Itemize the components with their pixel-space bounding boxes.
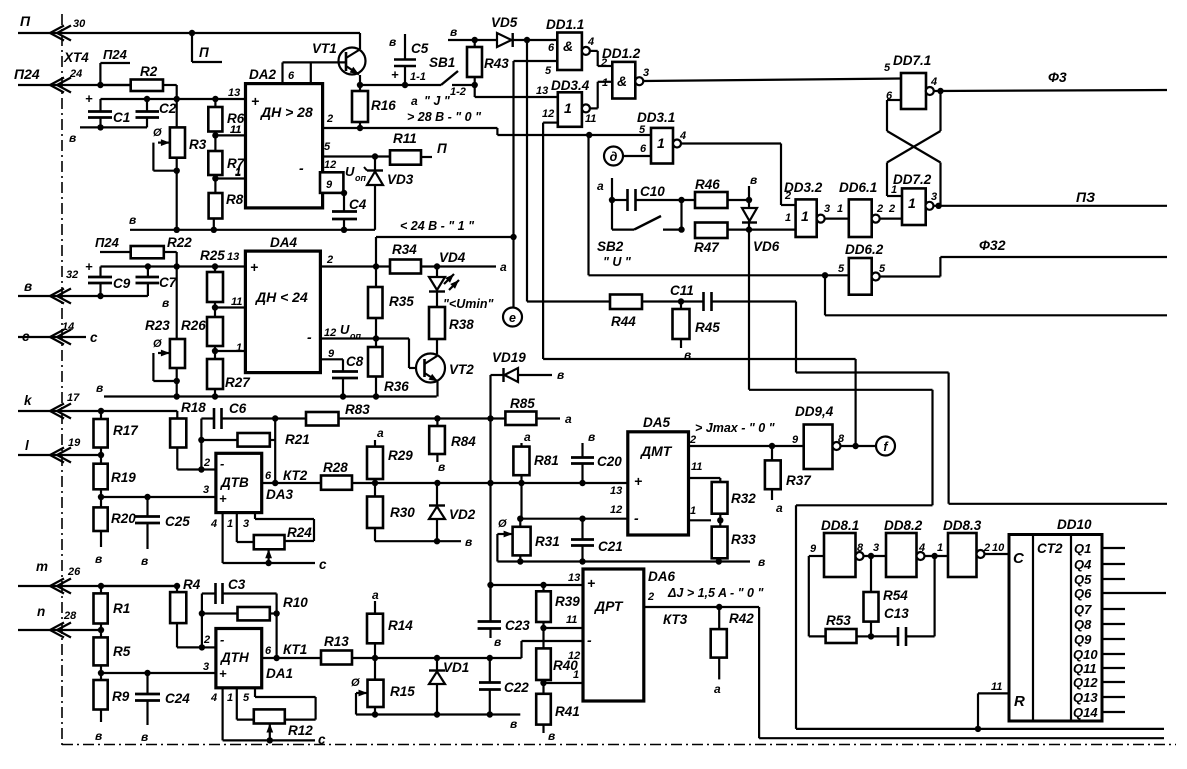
svg-text:10: 10 (992, 542, 1005, 554)
resistor R18 (170, 400, 206, 470)
svg-text:5: 5 (324, 141, 331, 153)
svg-text:a: a (377, 426, 384, 440)
svg-text:8: 8 (857, 542, 864, 554)
svg-text:Q14: Q14 (1073, 705, 1098, 720)
svg-text:Q4: Q4 (1074, 557, 1092, 572)
svg-text:DA2: DA2 (249, 67, 276, 82)
svg-text:Ø: Ø (153, 127, 162, 139)
resistor R54 (864, 556, 909, 636)
svg-text:Ø: Ø (351, 677, 360, 689)
svg-text:R43: R43 (484, 56, 509, 71)
wire net П top rail (18, 30, 360, 36)
svg-text:R4: R4 (183, 577, 201, 592)
wire DD3.1/DD6.2 input net (589, 135, 849, 278)
svg-text:28: 28 (63, 610, 77, 622)
wire net Ф32-2 output (825, 275, 1167, 315)
svg-text:R20: R20 (111, 511, 136, 526)
wire DA4 pin 1 stub (212, 348, 246, 354)
node д circle (604, 147, 651, 166)
potentiometer R31 (497, 518, 559, 565)
wire net КТ3 (DA6 output) (644, 586, 1164, 738)
op-amp U DA5 (ДМТ) (628, 415, 689, 535)
wire net VD5 anode (448, 25, 497, 43)
wire DD7.1 feedback cross (887, 91, 941, 206)
svg-text:-: - (307, 329, 312, 345)
svg-text:5: 5 (838, 263, 845, 275)
svg-text:Q8: Q8 (1074, 617, 1092, 632)
svg-text:5: 5 (639, 124, 646, 136)
gate DD9.4 (792, 404, 845, 469)
svg-text:c: c (90, 330, 98, 345)
svg-text:R47: R47 (694, 240, 720, 255)
svg-text:в: в (129, 213, 136, 227)
svg-text:КТ1: КТ1 (283, 642, 307, 657)
op-amp U DA6 (ДРТ) (583, 569, 675, 701)
svg-text:КТ2: КТ2 (283, 468, 308, 483)
gate DD6.1 (837, 180, 883, 237)
capacitor C8 (320, 354, 363, 397)
svg-text:2: 2 (600, 57, 607, 69)
svg-text:П: П (20, 13, 31, 29)
svg-text:a: a (524, 430, 531, 444)
wire DA1 pin 1 to R12 (227, 688, 254, 720)
svg-text:Q5: Q5 (1074, 572, 1092, 587)
svg-text:R22: R22 (167, 235, 192, 250)
svg-text:3: 3 (931, 191, 937, 203)
svg-text:a: a (411, 94, 418, 108)
resistor R26 (181, 308, 223, 352)
potentiometer R12 (254, 709, 313, 740)
transistor VT2 (416, 354, 474, 397)
svg-text:2: 2 (983, 542, 990, 554)
svg-text:2: 2 (647, 591, 654, 603)
svg-text:1: 1 (891, 184, 897, 196)
svg-text:в: в (557, 368, 564, 382)
svg-text:+: + (250, 259, 258, 275)
wire DA1 pin 2 net (199, 594, 216, 651)
node e circle (503, 308, 522, 327)
svg-text:1-1: 1-1 (410, 71, 426, 83)
svg-text:R1: R1 (113, 601, 130, 616)
capacitor C2 (136, 99, 177, 127)
svg-text:1: 1 (227, 518, 233, 530)
svg-text:R11: R11 (393, 131, 417, 146)
svg-text:2: 2 (784, 190, 791, 202)
svg-text:3: 3 (243, 518, 249, 530)
svg-text:+: + (85, 259, 93, 274)
capacitor C7 (136, 267, 178, 297)
resistor R53 (826, 613, 875, 643)
svg-text:Q7: Q7 (1074, 602, 1092, 617)
svg-text:в: в (96, 381, 103, 395)
diode VD1 (429, 658, 469, 718)
svg-text:R39: R39 (555, 594, 580, 609)
wire net a rail (R83/R85) (201, 415, 505, 470)
svg-text:2: 2 (326, 254, 333, 266)
svg-text:5: 5 (545, 65, 552, 77)
resistor R21 (198, 419, 310, 484)
node П stub label (192, 33, 222, 62)
resistor R16 (352, 85, 396, 128)
resistor R45 (673, 302, 721, 363)
resistor R43 (467, 40, 509, 88)
wire net l row (18, 452, 104, 458)
wire DA3 pin 2 net (198, 457, 216, 473)
svg-text:C13: C13 (884, 606, 909, 621)
wire net КТ2 rail (262, 468, 628, 486)
gate DD3.4 (536, 78, 596, 127)
diode VD5 (491, 15, 557, 47)
svg-text:CT2: CT2 (1037, 541, 1063, 556)
svg-text:-: - (220, 632, 224, 647)
svg-text:Q10: Q10 (1073, 647, 1098, 662)
svg-text:ДМТ: ДМТ (640, 443, 673, 459)
svg-text:+: + (587, 575, 595, 591)
wire DD3.4 pin 12 from f net (543, 121, 558, 123)
svg-text:> Jmax - " 0 ": > Jmax - " 0 " (695, 421, 776, 435)
capacitor C25 (135, 497, 190, 568)
svg-text:3: 3 (824, 203, 830, 215)
svg-text:-: - (634, 510, 639, 526)
svg-text:C7: C7 (159, 275, 178, 290)
resistor R8 (209, 179, 244, 230)
svg-text:2: 2 (689, 434, 696, 446)
resistor R29 (367, 426, 413, 483)
svg-text:Ø: Ø (498, 518, 507, 530)
svg-text:R83: R83 (345, 402, 370, 417)
wire DD8.2 out node (925, 542, 949, 559)
svg-text:" J ": " J " (424, 94, 451, 108)
wire node B rail (DA4 pin 13) (85, 259, 245, 274)
svg-text:R37: R37 (786, 473, 812, 488)
wire net k row (18, 408, 177, 419)
potentiometer R15 (351, 658, 415, 718)
svg-text:C6: C6 (229, 401, 247, 416)
svg-text:в: в (95, 552, 102, 566)
wire net КТ1 rail (262, 641, 583, 661)
svg-text:1: 1 (235, 167, 241, 179)
svg-text:DD9,4: DD9,4 (795, 404, 834, 419)
svg-text:Ø: Ø (153, 338, 162, 350)
svg-text:9: 9 (810, 543, 817, 555)
svg-text:C5: C5 (411, 41, 429, 56)
svg-text:в: в (389, 35, 396, 49)
wire net в rail 396 (96, 381, 437, 400)
resistor R11 (390, 131, 447, 165)
svg-text:DD3.1: DD3.1 (637, 110, 675, 125)
svg-text:2: 2 (203, 457, 210, 469)
svg-text:XT4: XT4 (63, 50, 89, 65)
svg-text:в: в (758, 555, 765, 569)
node f circle (876, 437, 895, 456)
svg-text:c: c (319, 557, 327, 572)
svg-text:12: 12 (324, 159, 336, 171)
wire DA6 pin 11 stub (544, 627, 584, 629)
svg-text:R53: R53 (826, 613, 851, 628)
svg-text:Ф3: Ф3 (1048, 69, 1067, 85)
connector pin 26 (m) (36, 559, 81, 594)
svg-text:l: l (25, 438, 29, 453)
svg-text:ΔJ > 1,5 A - " 0 ": ΔJ > 1,5 A - " 0 " (667, 586, 764, 600)
svg-text:в: в (141, 554, 148, 568)
svg-text:R54: R54 (883, 588, 908, 603)
svg-text:5: 5 (879, 263, 886, 275)
resistor R46 (695, 177, 749, 208)
svg-text:R32: R32 (731, 491, 756, 506)
svg-text:DA4: DA4 (270, 235, 297, 250)
wire DD1.2 out to DD7.1 (643, 79, 901, 82)
wire node A rail (DA2 pin 13) (85, 91, 246, 106)
wire net в-32 row (18, 293, 169, 310)
svg-text:R44: R44 (611, 314, 636, 329)
svg-text:R2: R2 (140, 64, 158, 79)
svg-text:R3: R3 (189, 137, 207, 152)
svg-text:DD6.1: DD6.1 (839, 180, 877, 195)
U DA6 pin numbers (566, 572, 654, 681)
node П24 stub 2 (95, 235, 131, 252)
svg-text:11: 11 (230, 124, 241, 136)
gate DD1.1 (545, 17, 594, 77)
wire net П24 row (18, 82, 131, 88)
resistor R27 (207, 351, 251, 397)
svg-text:DA1: DA1 (266, 666, 293, 681)
wire DA3 pin 3 net (101, 494, 216, 500)
resistor R36 (368, 339, 409, 397)
svg-text:9: 9 (326, 179, 333, 191)
wire DA6 pin 1 stub (544, 682, 584, 684)
diode VD6 (742, 200, 780, 254)
svg-text:ДРТ: ДРТ (594, 598, 624, 614)
wire DD8.3 out to DD10 (985, 553, 1010, 555)
svg-text:П24: П24 (14, 66, 40, 82)
resistor R25 (200, 248, 225, 308)
svg-text:в: в (141, 730, 148, 744)
svg-text:R30: R30 (390, 505, 415, 520)
resistor R85 (505, 396, 572, 426)
zener diode VD3 (345, 157, 414, 230)
svg-text:C20: C20 (597, 454, 622, 469)
svg-text:VD3: VD3 (387, 172, 414, 187)
svg-text:Q1: Q1 (1074, 541, 1091, 556)
svg-text:R24: R24 (287, 525, 312, 540)
wire net <24V-1 (376, 219, 517, 267)
capacitor C9 (88, 267, 131, 297)
svg-text:DD1.1: DD1.1 (546, 17, 584, 32)
svg-text:a: a (714, 682, 721, 696)
svg-text:DD8.2: DD8.2 (884, 518, 923, 533)
svg-text:C4: C4 (349, 197, 367, 212)
svg-text:П24: П24 (95, 235, 120, 250)
svg-text:3: 3 (203, 484, 209, 496)
wire net f (DD3.4 pin12 to DD9.4) (543, 123, 856, 446)
svg-text:VD6: VD6 (753, 239, 780, 254)
svg-text:9: 9 (792, 434, 799, 446)
wire DD10 Q pin stubs (1102, 548, 1166, 712)
svg-text:5: 5 (884, 62, 891, 74)
connector pin 32 (в) (24, 269, 78, 304)
svg-text:1: 1 (227, 692, 233, 704)
wire DA3 pin 4 to c (210, 513, 327, 572)
resistor R35 (368, 267, 414, 342)
svg-text:R31: R31 (535, 534, 560, 549)
capacitor C1 (88, 99, 130, 127)
capacitor C21 (571, 519, 623, 562)
svg-text:ДТВ: ДТВ (220, 475, 249, 490)
svg-text:VT1: VT1 (312, 41, 337, 56)
svg-text:-: - (587, 632, 592, 648)
svg-text:1: 1 (236, 342, 242, 354)
wire DA1 pin 5 loop (243, 688, 316, 720)
gate DD8.1 (810, 518, 864, 577)
wire C11 to DD10 area (796, 302, 1167, 504)
svg-text:Q12: Q12 (1073, 675, 1098, 690)
gate DD8.3 (943, 518, 1005, 577)
svg-text:< 24 В - " 1 ": < 24 В - " 1 " (400, 219, 475, 233)
wire R43 to DD3.4 pin 13 (475, 85, 558, 97)
svg-text:6: 6 (548, 42, 555, 54)
transistor VT1 (312, 33, 366, 85)
svg-text:д: д (610, 150, 618, 164)
resistor R39 (536, 585, 580, 631)
resistor R22 (131, 235, 193, 267)
svg-text:C25: C25 (165, 514, 190, 529)
svg-text:в: в (24, 279, 32, 294)
svg-text:1: 1 (785, 212, 791, 224)
svg-text:n: n (37, 604, 45, 619)
svg-text:R17: R17 (113, 423, 139, 438)
gate DD7.1 (884, 53, 937, 109)
svg-text:17: 17 (67, 392, 80, 404)
svg-text:11: 11 (691, 461, 702, 473)
wire DA2 output pin 2 net (323, 125, 651, 138)
wire net c stub (18, 330, 98, 345)
svg-text:1-2: 1-2 (450, 86, 466, 98)
svg-text:1: 1 (564, 100, 572, 116)
svg-text:оп: оп (350, 331, 361, 341)
svg-text:C21: C21 (598, 539, 623, 554)
svg-text:R14: R14 (388, 618, 413, 633)
svg-text:П: П (199, 45, 209, 60)
resistor R32 (712, 482, 757, 524)
wire DA5 pin 1 stub (689, 519, 712, 521)
connector pin 24 (П24) (14, 66, 82, 93)
svg-text:5: 5 (243, 692, 250, 704)
svg-text:R40: R40 (553, 658, 578, 673)
potentiometer R24 (254, 525, 312, 563)
svg-text:3: 3 (873, 542, 879, 554)
resistor R41 (536, 683, 580, 743)
svg-text:R84: R84 (451, 434, 476, 449)
connector pin 14 (c) (22, 321, 74, 345)
resistor R33 (712, 520, 757, 561)
gate DD3.1 (637, 110, 686, 164)
wire DA4 pin 12 net (320, 322, 416, 368)
svg-text:DD8.1: DD8.1 (821, 518, 859, 533)
connector pin 30 (П) (20, 13, 86, 41)
svg-text:1: 1 (837, 203, 843, 215)
op-amp U DA3 (ДТВ) (203, 453, 293, 512)
capacitor C5 (389, 34, 429, 88)
svg-text:в: в (450, 25, 457, 39)
svg-text:КТ3: КТ3 (663, 612, 688, 627)
svg-text:VD19: VD19 (492, 350, 526, 365)
op-amp U DA4 (ДН<24) (245, 235, 320, 373)
svg-text:C10: C10 (640, 184, 665, 199)
wire DD9.4 out to f (841, 443, 877, 449)
svg-text:ПЗ: ПЗ (1076, 189, 1095, 205)
switch SB2 (597, 200, 682, 269)
wire net m rail to R4 (101, 585, 177, 587)
svg-text:C8: C8 (346, 354, 364, 369)
svg-text:1: 1 (801, 208, 809, 224)
wire net e (DD1.1 pin5 / <24V) (514, 61, 558, 308)
svg-text:6: 6 (265, 470, 272, 482)
counter U DD10 (CT2) (1009, 517, 1102, 721)
svg-text:R85: R85 (510, 396, 535, 411)
wire DA1 pin 4 to c (210, 688, 326, 747)
resistor R17 (94, 411, 140, 455)
svg-text:13: 13 (568, 572, 580, 584)
svg-text:R18: R18 (181, 400, 206, 415)
svg-text:DD1.2: DD1.2 (602, 46, 641, 61)
svg-text:ДТН: ДТН (220, 650, 249, 665)
svg-text:U: U (345, 164, 355, 179)
svg-text:2: 2 (203, 634, 210, 646)
svg-text:R42: R42 (729, 611, 754, 626)
svg-text:Q9: Q9 (1074, 632, 1092, 647)
svg-text:R23: R23 (145, 318, 170, 333)
svg-text:R41: R41 (555, 704, 580, 719)
svg-text:4: 4 (210, 692, 217, 704)
svg-text:-: - (299, 160, 304, 176)
svg-text:R38: R38 (449, 317, 474, 332)
capacitor C10 (612, 184, 695, 211)
svg-text:11: 11 (585, 113, 596, 125)
svg-text:C: C (1013, 550, 1025, 567)
svg-text:R19: R19 (111, 470, 136, 485)
resistor R38 (429, 307, 474, 354)
wire DA5 pin 11 stub (689, 478, 721, 482)
capacitor C23 (478, 585, 531, 649)
svg-text:2: 2 (876, 203, 883, 215)
svg-text:ДН > 28: ДН > 28 (260, 104, 313, 120)
svg-text:П: П (437, 141, 447, 156)
svg-text:оп: оп (355, 173, 366, 183)
svg-text:13: 13 (610, 485, 622, 497)
svg-text:e: e (509, 311, 516, 325)
svg-text:R8: R8 (226, 192, 244, 207)
svg-text:8: 8 (838, 433, 845, 445)
svg-text:6: 6 (640, 143, 647, 155)
svg-text:&: & (617, 73, 627, 89)
wire net Ф32 (880, 237, 1167, 277)
svg-text:2: 2 (888, 203, 895, 215)
svg-text:DD3.4: DD3.4 (551, 78, 590, 93)
svg-text:SB2: SB2 (597, 239, 624, 254)
svg-text:в: в (162, 296, 169, 310)
U DA2 pin numbers (228, 87, 336, 191)
connector pin 19 (l) (25, 437, 81, 463)
svg-text:R5: R5 (113, 644, 131, 659)
svg-text:3: 3 (203, 661, 209, 673)
svg-text:R13: R13 (324, 634, 349, 649)
capacitor C13 (871, 556, 935, 646)
svg-text:a: a (565, 412, 572, 426)
resistor R2 (100, 64, 176, 99)
wire DA4 pin 11 stub (212, 304, 246, 310)
resistor R4 (170, 577, 202, 647)
svg-text:R25: R25 (200, 248, 225, 263)
